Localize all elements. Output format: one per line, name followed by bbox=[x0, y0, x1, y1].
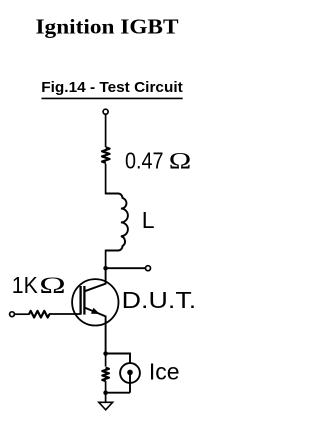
svg-text:Ω: Ω bbox=[39, 273, 66, 298]
wire: emitter node to current source bbox=[106, 354, 130, 364]
svg-text:Ω: Ω bbox=[169, 148, 192, 173]
resistor R2 1K ohm (horizontal zigzag) bbox=[29, 311, 49, 318]
terminal: collector sense terminal bbox=[146, 266, 151, 271]
ground bbox=[99, 402, 113, 410]
svg-text:D.U.T.: D.U.T. bbox=[122, 287, 197, 313]
wire: collector lead into transistor bbox=[84, 268, 105, 291]
transistor channel bar (right) bbox=[83, 286, 85, 315]
svg-text:Ignition IGBT: Ignition IGBT bbox=[36, 15, 179, 39]
wire: top terminal to R1 bbox=[105, 114, 107, 147]
terminal: gate input terminal bbox=[10, 312, 15, 317]
svg-text:L: L bbox=[142, 207, 155, 233]
wire: gate terminal to R2 bbox=[14, 313, 29, 315]
inductor L (coil) bbox=[106, 194, 128, 251]
wire: collector node to right terminal bbox=[106, 267, 146, 269]
wire: R1 to inductor bbox=[105, 164, 107, 195]
resistor R1 0.47 ohm (vertical zigzag) bbox=[102, 147, 110, 163]
transistor Q1 D.U.T. circle bbox=[72, 279, 118, 325]
wire: current source to ground node bbox=[106, 392, 130, 394]
svg-text:1K: 1K bbox=[12, 272, 39, 298]
wire: R2 to gate bar bbox=[49, 313, 81, 315]
svg-text:Fig.14 - Test Circuit: Fig.14 - Test Circuit bbox=[41, 79, 183, 96]
resistor R3 sense (vertical zigzag) bbox=[102, 368, 109, 381]
wire: R3 to ground node bbox=[105, 381, 107, 393]
wire: inductor to collector node bbox=[105, 250, 107, 269]
terminal: top supply terminal bbox=[103, 109, 108, 114]
current source Ice circle bbox=[120, 363, 140, 383]
transistor emitter lead bbox=[84, 308, 105, 354]
subtitle underline bbox=[42, 97, 183, 99]
current source inner stem bbox=[129, 373, 131, 393]
wire: ground node to ground symbol bbox=[105, 393, 107, 403]
node: emitter junction dot bbox=[103, 351, 108, 356]
svg-text:Ice: Ice bbox=[149, 359, 180, 385]
node: ground junction dot bbox=[103, 390, 108, 395]
svg-text:0.47: 0.47 bbox=[125, 147, 164, 173]
transistor emitter arrow bbox=[91, 308, 100, 314]
current source inner dot bbox=[127, 370, 133, 376]
transistor gate bar (left) bbox=[79, 286, 81, 315]
wire: emitter node to R3 bbox=[105, 354, 107, 367]
node: collector junction dot bbox=[103, 266, 108, 271]
